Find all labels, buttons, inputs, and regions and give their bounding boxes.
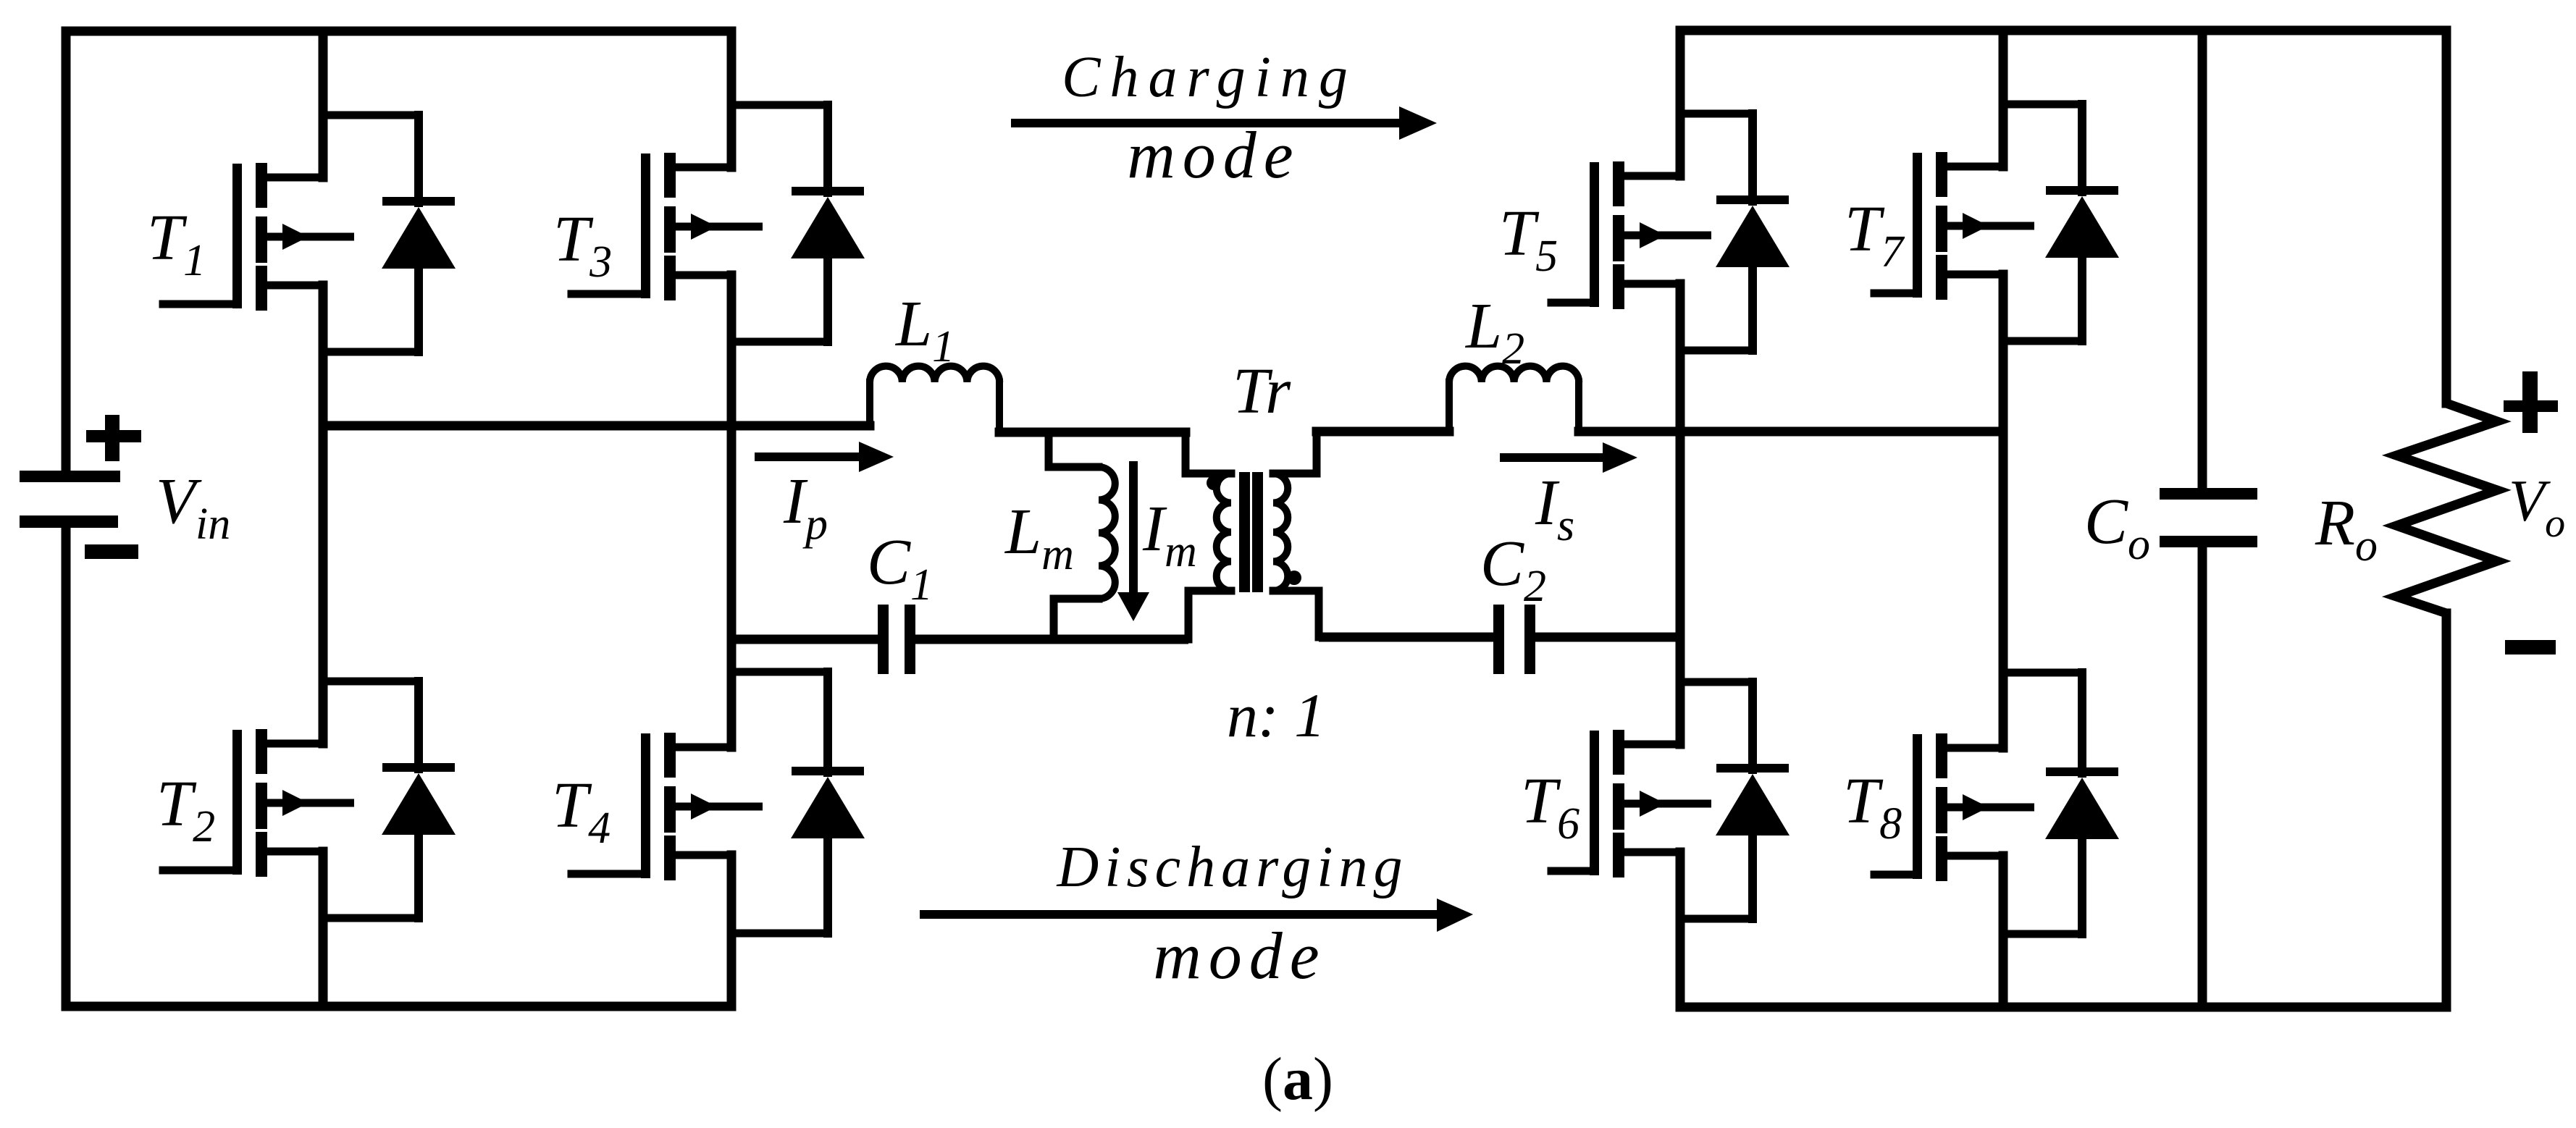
wire top-right rail [1680,26,2446,35]
wire leg B middle (T3 source to T4 drain) [727,275,737,747]
arrow Is [1500,442,1637,473]
wire left input lower [62,528,71,1006]
capacitor Co [2160,488,2257,547]
transformer Tr secondary winding [1273,432,1319,637]
wire leg B to C1 [731,635,878,644]
body diode of T7 [2003,104,2119,341]
transformer Tr primary winding [1186,432,1231,639]
transistor T8 (N-MOSFET) [1874,733,2034,881]
capacitor Co top wire [2198,30,2207,488]
transformer polarity dot primary [1207,476,1221,490]
wire L2 to leg D [1579,427,2003,437]
transistor T6 (N-MOSFET) [1551,730,1711,877]
wire leg B upper (T3 drain) [727,31,737,167]
body diode of T1 [323,115,456,352]
inductor L1 [870,366,999,432]
wire leg A middle (T1 source to T2 drain) [319,285,328,744]
svg-text:Charging: Charging [1062,46,1357,109]
svg-text:n: 1: n: 1 [1227,681,1325,750]
transistor T1 (N-MOSFET) [163,163,354,311]
inductor L2 [1449,366,1579,432]
wire leg A lower (T2 source to bottom rail) [319,851,328,1006]
wire leg D lower (T8 source to bottom rail) [1999,856,2008,1007]
transistor T2 (N-MOSFET) [163,729,354,877]
arrow Ip [755,442,894,472]
wire leg A upper (T1 drain) [319,31,328,177]
wire C1 to transformer bottom [915,635,1188,644]
capacitor C2 [1493,605,1535,674]
body diode of T8 [2003,673,2119,934]
resistor Ro bottom wire [2442,613,2451,1007]
wire left input upper [62,31,71,471]
wire top-left rail [66,27,731,36]
wire leg C lower (T6 source to bottom rail) [1676,852,1685,1007]
body diode of T3 [731,105,865,342]
resistor Ro zigzag [2396,403,2497,613]
arrow Im (magnetizing current) [1117,461,1149,621]
body diode of T2 [323,681,456,918]
transformer Tr core [1239,472,1263,592]
body diode of T4 [731,672,865,933]
transistor T4 (N-MOSFET) [571,733,763,880]
wire leg D upper (T7 drain) [1999,30,2008,167]
wire leg D middle (T7 source to T8 drain) [1999,274,2008,748]
capacitor C1 [878,605,915,674]
minus sign Vo [2505,640,2556,655]
wire leg C upper (T5 drain) [1676,30,1685,176]
minus sign Vin [85,544,138,559]
svg-text:Tr: Tr [1233,355,1291,427]
transistor T7 (N-MOSFET) [1874,152,2034,300]
resistor Ro top wire [2442,30,2451,403]
svg-text:mode: mode [1153,919,1326,993]
wire leg B lower (T4 source to bottom rail) [727,855,737,1006]
transistor T5 (N-MOSFET) [1551,161,1711,309]
wire bottom-right rail [1680,1003,2446,1012]
plus sign Vo [2504,371,2558,433]
svg-text:(a): (a) [1262,1045,1333,1113]
transformer polarity dot secondary [1287,571,1301,585]
source Vin plates [20,471,120,528]
body diode of T5 [1680,114,1790,350]
capacitor Co bottom wire [2198,547,2207,1007]
transistor T3 (N-MOSFET) [571,153,763,300]
wire primary mid rail (leg A to L1) [323,421,870,431]
wire transformer to L2 [1317,427,1449,437]
wire transformer bottom to C2 [1319,633,1493,642]
svg-text:mode: mode [1127,118,1300,192]
inductor Lm [1049,432,1115,639]
svg-text:Discharging: Discharging [1056,836,1408,899]
wire leg C middle (T5 source to T6 drain) [1676,284,1685,744]
arrow discharging mode [920,898,1473,932]
arrow charging mode [1011,106,1437,140]
plus sign Vin [86,415,141,461]
body diode of T6 [1680,682,1790,919]
wire L1 to transformer [999,428,1186,437]
wire C2 to leg C [1535,633,1680,642]
wire bottom-left rail [66,1002,731,1011]
